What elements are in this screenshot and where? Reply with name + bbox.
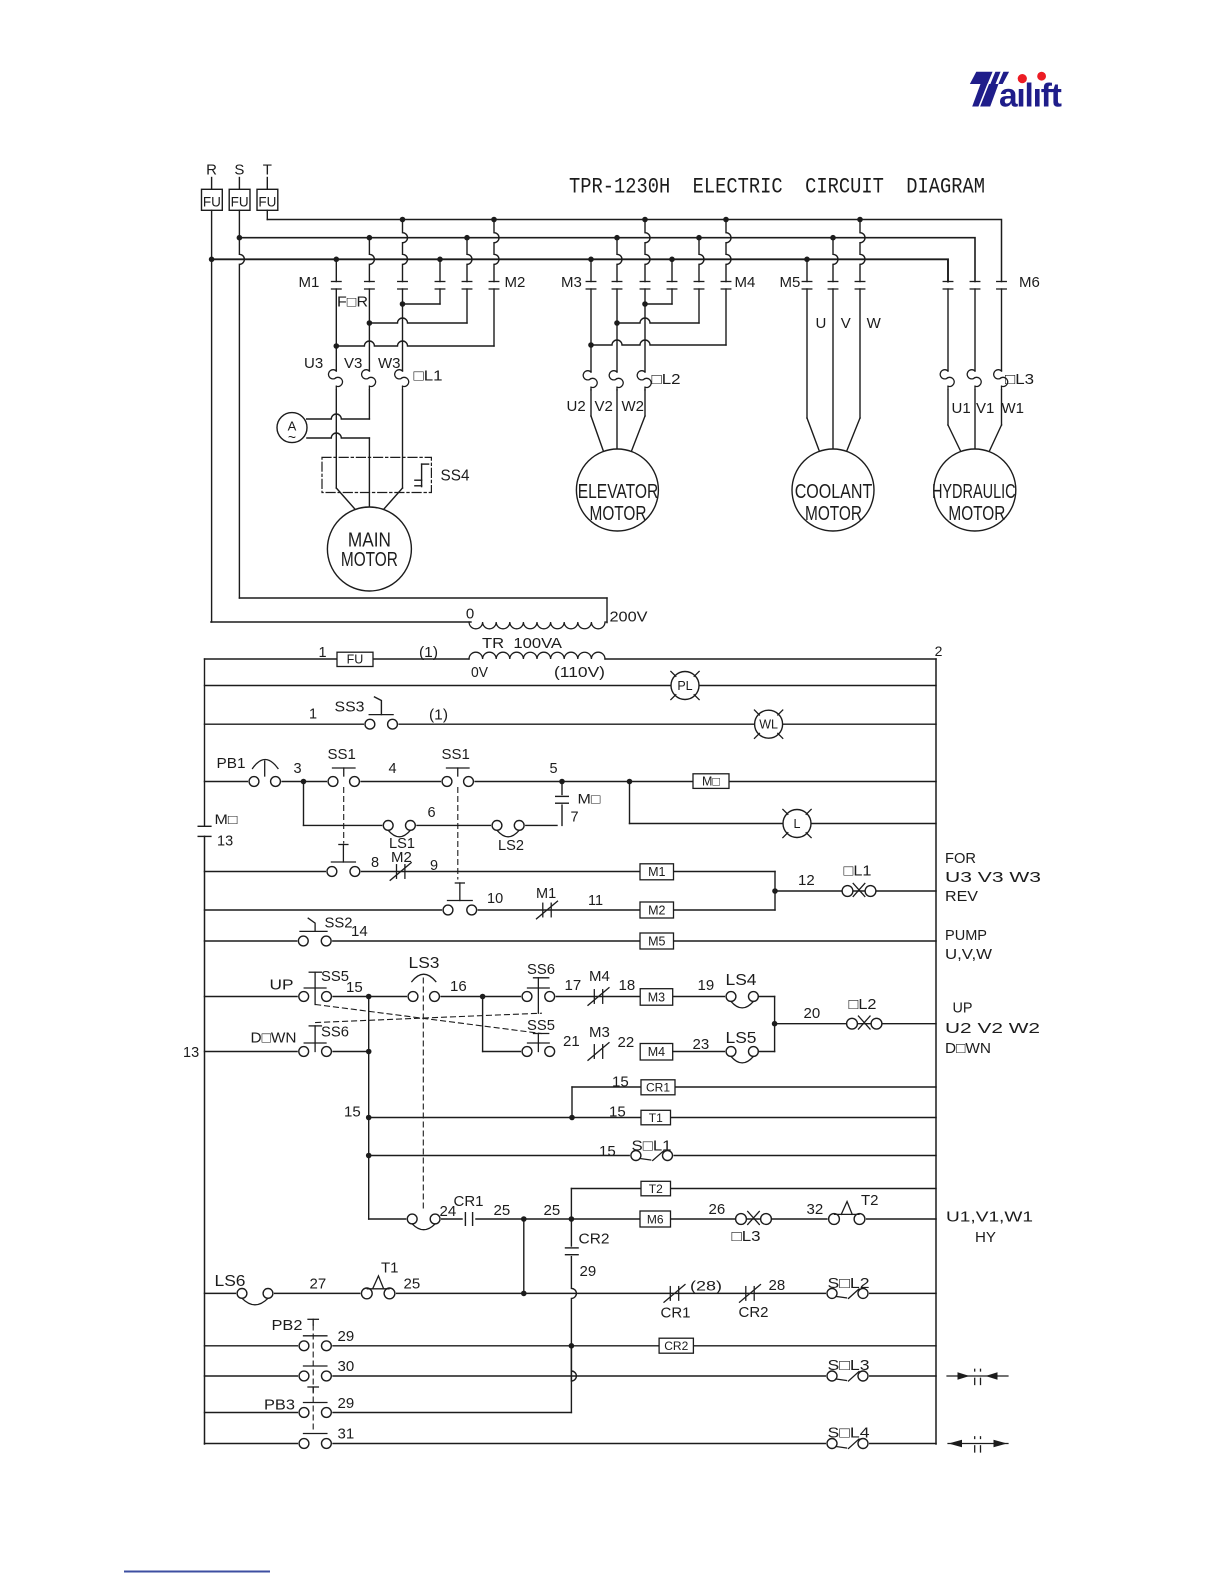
switch SS2 — [297, 915, 352, 947]
svg-text:5: 5 — [549, 761, 557, 777]
svg-text:CR1: CR1 — [646, 1081, 670, 1095]
rung wire: PL pilot lamp — [205, 685, 937, 687]
fuse FU phase S — [229, 189, 250, 210]
contactor M6 (3 poles) — [943, 274, 1040, 291]
contact M2 NC interlock — [390, 849, 412, 880]
label 17 — [565, 977, 582, 994]
coil T1 — [641, 1110, 671, 1125]
switch SS3 — [335, 697, 399, 730]
svg-text:S□L2: S□L2 — [828, 1275, 870, 1292]
valve symbol (SOL3, arrows in) — [947, 1369, 1008, 1384]
motor COOLANT MOTOR — [792, 449, 874, 531]
contact OL1 NC (thermal) — [842, 863, 876, 897]
transformer TR primary winding — [469, 622, 607, 629]
node C junction — [366, 1049, 372, 1055]
solenoid SOL2 — [826, 1275, 870, 1299]
svg-text:V: V — [841, 315, 851, 332]
label V phase — [841, 315, 851, 332]
svg-text:CR2: CR2 — [739, 1305, 769, 1321]
svg-text:UP: UP — [270, 977, 294, 994]
svg-text:ELEVATOR: ELEVATOR — [578, 481, 659, 503]
label 13 (left of rail) — [183, 1045, 199, 1061]
svg-text:25: 25 — [404, 1276, 421, 1293]
wire phase R down to transformer primary — [211, 210, 471, 622]
svg-text:22: 22 — [618, 1034, 635, 1051]
label 12 — [798, 872, 815, 889]
svg-text:U2: U2 — [567, 398, 586, 415]
svg-text:21: 21 — [563, 1033, 580, 1050]
svg-text:LS5: LS5 — [726, 1030, 757, 1047]
pushbutton PB3 (NO) — [264, 1397, 332, 1419]
rung wire: T1 coil — [366, 1115, 936, 1121]
rung wire: UP - M3 coil — [205, 996, 732, 998]
svg-text:SS3: SS3 — [335, 699, 365, 716]
svg-text:PB2: PB2 — [272, 1317, 303, 1334]
contact OL2 NC (thermal) — [847, 996, 882, 1029]
node junction CR2 branch — [569, 1343, 575, 1349]
contact OL3 NC (thermal) — [732, 1211, 772, 1245]
label 1 — [318, 645, 326, 661]
label 9 — [430, 858, 438, 874]
svg-text:6: 6 — [427, 805, 435, 821]
label 15 (CR1) — [612, 1074, 629, 1091]
rung wire: M2 coil (REV) — [205, 909, 776, 911]
label SS6 (DOWN) — [321, 1025, 349, 1041]
svg-text:27: 27 — [310, 1276, 327, 1293]
contactor M1 (3 poles) — [299, 217, 408, 291]
label 19 — [698, 977, 715, 994]
phase T label — [263, 162, 272, 179]
label PUMP — [945, 927, 987, 944]
rung wire: DOWN — [205, 1051, 369, 1053]
svg-text:HYDRAULIC: HYDRAULIC — [932, 481, 1016, 503]
label 15 — [346, 979, 363, 996]
svg-text:LS4: LS4 — [726, 972, 757, 989]
svg-text:LS6: LS6 — [215, 1273, 246, 1290]
label 27 — [310, 1276, 327, 1293]
coil M5 — [640, 933, 674, 949]
svg-text:0: 0 — [466, 606, 474, 623]
rung wire: PB3 NC - SOL4 — [205, 1443, 937, 1445]
wire W3 down through SS4 box to motor — [384, 390, 403, 510]
label U,V,W — [945, 946, 993, 963]
label 21 — [563, 1033, 580, 1050]
label 28 — [769, 1277, 786, 1294]
label W3 — [378, 355, 401, 372]
label SS5 (UP) — [321, 969, 349, 985]
contact CR2 NC — [739, 1285, 769, 1321]
dashed interlock SS5 UP-DOWN — [316, 1005, 542, 1034]
label U2 — [567, 398, 586, 415]
L lamp branch wire — [630, 782, 937, 824]
svg-text:MOTOR: MOTOR — [341, 549, 398, 571]
svg-text:PL: PL — [677, 679, 692, 693]
switch SS5 (UP) — [298, 972, 333, 1004]
svg-text:17: 17 — [565, 977, 582, 994]
svg-text:(28): (28) — [690, 1278, 722, 1294]
phase R label — [206, 162, 217, 179]
svg-text:8: 8 — [371, 855, 379, 871]
label U3 V3 W3 — [945, 869, 1041, 886]
svg-text:W1: W1 — [1002, 400, 1025, 417]
limit switch LS5 — [725, 1030, 759, 1063]
label V1 — [976, 400, 994, 417]
right rail (node 2) — [935, 659, 937, 1444]
svg-text:SS5: SS5 — [321, 969, 349, 985]
footer rule — [125, 1571, 269, 1573]
fuse FU phase T — [257, 189, 278, 210]
svg-text:SS6: SS6 — [527, 962, 555, 978]
rung wire: control feed through fuse — [205, 658, 937, 660]
wires OL2 to elevator motor — [591, 390, 645, 453]
wire M2 pole2 to M1 pole2 — [367, 289, 467, 326]
svg-text:M□: M□ — [578, 792, 601, 807]
svg-text:31: 31 — [338, 1426, 355, 1443]
wire ammeter bottom (to motor) — [307, 433, 370, 507]
svg-text:U3 V3 W3: U3 V3 W3 — [945, 869, 1041, 886]
svg-text:S□L3: S□L3 — [828, 1357, 870, 1374]
switch SS4 (dash-dot enclosure) — [322, 457, 470, 492]
svg-text:29: 29 — [338, 1328, 355, 1345]
svg-text:S□L4: S□L4 — [828, 1425, 870, 1442]
pushbutton PB2 (NO) — [272, 1317, 333, 1352]
svg-text:29: 29 — [338, 1395, 355, 1412]
label 15 (left of T1 rung) — [344, 1104, 361, 1121]
svg-text:SS6: SS6 — [321, 1025, 349, 1041]
svg-text:M3: M3 — [648, 990, 665, 1004]
svg-text:26: 26 — [709, 1201, 726, 1218]
label (110V) — [554, 664, 605, 681]
contactor M2 (3 poles) — [435, 217, 525, 291]
svg-text:32: 32 — [807, 1201, 824, 1218]
label W phase — [867, 315, 882, 332]
svg-text:M□: M□ — [215, 812, 238, 827]
label 15 (T1) — [609, 1104, 626, 1121]
contact M0 (seal-in, capacitor style) — [555, 782, 601, 826]
svg-text:FU: FU — [231, 195, 249, 210]
wire ammeter top (from V3) — [307, 390, 370, 419]
wire M4 pole3 to M3 pole1 — [588, 289, 726, 348]
svg-text:M6: M6 — [647, 1212, 664, 1226]
svg-text:CR2: CR2 — [579, 1231, 610, 1248]
motor HYDRAULIC MOTOR — [932, 449, 1016, 531]
label V3 — [344, 355, 362, 372]
Tailift logo — [970, 71, 1062, 115]
svg-text:23: 23 — [693, 1036, 710, 1053]
svg-text:□L2: □L2 — [849, 996, 877, 1013]
contact M0 (NC in left rail) — [198, 812, 237, 850]
lamp L — [783, 809, 811, 837]
svg-text:MOTOR: MOTOR — [590, 503, 647, 525]
left rail (node 13 below M0 contact) — [204, 659, 206, 1444]
dashed link LS3 to its lower pole — [422, 978, 424, 1212]
label 25 — [494, 1202, 511, 1219]
rung wire: SS3 / WL lamp — [205, 723, 937, 725]
svg-text:SS5: SS5 — [527, 1018, 555, 1034]
label DOWN (right) — [945, 1040, 991, 1057]
rung wire: PB3 (node 29) — [205, 1412, 572, 1414]
svg-text:M3: M3 — [589, 1024, 610, 1041]
wire T lead-in — [266, 178, 268, 190]
coil T2 — [641, 1181, 671, 1196]
label U3 — [304, 355, 323, 372]
dashed link SS1 pole1 — [343, 788, 345, 844]
solenoid SOL3 — [826, 1357, 870, 1382]
svg-text:M2: M2 — [391, 849, 412, 866]
label (1) — [419, 645, 438, 661]
label (1) on SS3 rung — [429, 708, 448, 724]
label 18 — [619, 977, 636, 994]
svg-text:M6: M6 — [1019, 274, 1040, 291]
label 24 — [440, 1203, 457, 1220]
svg-text:U: U — [816, 315, 827, 332]
label SS6 (UP) — [527, 962, 555, 978]
svg-text:12: 12 — [798, 872, 815, 889]
svg-text:15: 15 — [344, 1104, 361, 1121]
coil M2 — [640, 902, 674, 918]
svg-text:S: S — [234, 162, 244, 179]
svg-text:W3: W3 — [378, 355, 401, 372]
limit switch LS4 — [725, 972, 759, 1008]
svg-text:□L2: □L2 — [652, 371, 681, 388]
contact M1 NC interlock — [536, 886, 558, 919]
rung wire: PB2 - CR2 coil — [205, 1345, 937, 1347]
wire M4 pole1 to M3 pole3 (node) — [642, 289, 672, 307]
svg-text:U2 V2 W2: U2 V2 W2 — [945, 1020, 1040, 1037]
label UP — [270, 977, 294, 994]
label U1,V1,W1 — [946, 1209, 1033, 1226]
solenoid SOL1 — [630, 1138, 674, 1162]
svg-text:1: 1 — [318, 645, 326, 661]
label REV — [945, 888, 978, 905]
svg-text:0V: 0V — [471, 664, 488, 681]
wires OL3 to hydraulic motor — [948, 390, 1002, 453]
label SS5 (DOWN) — [527, 1018, 555, 1034]
label HY — [975, 1229, 996, 1246]
svg-text:FU: FU — [258, 195, 276, 210]
motor MAIN MOTOR — [327, 507, 411, 591]
label FOR — [945, 850, 976, 867]
wire M4 pole2 to M3 pole2 — [614, 289, 699, 326]
limit switch LS6 — [215, 1273, 274, 1305]
wire M2 pole3 to M1 pole1 — [334, 289, 495, 349]
wires M6 poles down to OL3 — [948, 289, 1002, 371]
label W1 — [1002, 400, 1025, 417]
svg-text:14: 14 — [351, 923, 368, 940]
svg-text:M4: M4 — [735, 274, 756, 291]
svg-text:F□R: F□R — [337, 295, 368, 311]
svg-text:□L3: □L3 — [732, 1228, 761, 1245]
svg-text:MOTOR: MOTOR — [948, 503, 1005, 525]
fuse FU phase R — [202, 189, 223, 210]
label 32 — [807, 1201, 824, 1218]
label 10 — [487, 891, 503, 907]
svg-text:15: 15 — [346, 979, 363, 996]
label UP (right) — [953, 1000, 973, 1017]
coil M0 — [693, 774, 729, 789]
wire node 25 down to LS6 rung — [523, 1219, 525, 1293]
transformer TR secondary winding — [469, 652, 605, 659]
coil M3 — [640, 989, 673, 1006]
svg-text:(1): (1) — [429, 708, 448, 724]
svg-text:FU: FU — [203, 195, 221, 210]
label 29 (branch) — [580, 1263, 597, 1280]
svg-text:7: 7 — [571, 810, 579, 826]
wire U3 down through SS4 box to motor — [336, 390, 355, 510]
svg-text:M4: M4 — [589, 968, 610, 985]
svg-text:FOR: FOR — [945, 850, 976, 867]
svg-text:SS2: SS2 — [325, 915, 353, 932]
svg-text:M2: M2 — [648, 903, 665, 917]
label 4 — [388, 761, 396, 777]
label 3 — [293, 761, 301, 777]
wire M3 poles down to OL2 — [591, 304, 645, 372]
svg-text:25: 25 — [544, 1202, 561, 1219]
wire phase T to bus L1 — [266, 210, 268, 219]
label V2 — [595, 398, 613, 415]
label TR 100VA — [482, 635, 562, 652]
dashed link SS1 pole2 — [457, 788, 459, 880]
svg-text:U,V,W: U,V,W — [945, 946, 993, 963]
rung wire: OL2 NC to right rail — [775, 1023, 936, 1025]
svg-text:TR 100VA: TR 100VA — [482, 635, 562, 652]
label 8 — [371, 855, 379, 871]
solenoid SOL4 — [826, 1425, 870, 1450]
switch SS6 (DOWN) — [298, 1026, 333, 1058]
wire M2 pole1 to M1 pole3 (node) — [400, 289, 440, 307]
svg-text:T1: T1 — [649, 1111, 663, 1125]
overload relay OL1 (3 heaters) — [328, 368, 442, 390]
switch SS1 (first pole) — [327, 746, 360, 787]
dashed interlock SS6 DOWN-UP — [316, 1013, 542, 1022]
wires M5 to coolant motor — [807, 289, 860, 453]
rung wire: LS6 - T1 - CR1 - CR2 - SOL2 — [205, 1292, 937, 1294]
coil M6 — [640, 1211, 671, 1227]
svg-text:T: T — [263, 162, 272, 179]
svg-text:HY: HY — [975, 1229, 996, 1246]
svg-text:15: 15 — [599, 1143, 616, 1160]
rung wire: M6 coil (HY) — [369, 1218, 936, 1220]
label 14 — [351, 923, 368, 940]
svg-text:V2: V2 — [595, 398, 613, 415]
svg-text:M1: M1 — [648, 865, 665, 879]
node R / bus L3 junction — [209, 257, 215, 263]
contact CR1 NC — [661, 1285, 691, 1322]
svg-text:M1: M1 — [536, 886, 556, 902]
svg-text:13: 13 — [183, 1045, 199, 1061]
fuse FU (control) — [337, 652, 373, 667]
contactor M3 (3 poles) — [561, 217, 650, 291]
motor ELEVATOR MOTOR — [576, 449, 658, 531]
wire M1 poles down to OL1 — [336, 304, 402, 371]
svg-text:(1): (1) — [419, 645, 438, 661]
svg-text:V3: V3 — [344, 355, 362, 372]
lamp WL — [754, 710, 782, 738]
contactor M4 (3 poles) — [667, 217, 755, 291]
contact CR2 branch wire (node 29) — [571, 1219, 576, 1413]
svg-text:U1: U1 — [952, 400, 971, 417]
switch SS1 linked pole (10) — [442, 883, 478, 916]
label FOR — [337, 295, 368, 311]
limit switch LS2 — [491, 820, 525, 855]
limit switch LS3 lower pole — [406, 1213, 441, 1230]
svg-text:□L1: □L1 — [414, 368, 443, 385]
bus L3 — [212, 259, 948, 281]
svg-text:M4: M4 — [648, 1045, 665, 1059]
wire R lead-in — [211, 178, 213, 190]
svg-text:16: 16 — [450, 978, 467, 995]
label 15 (SOL1) — [599, 1143, 616, 1160]
node B junction — [480, 994, 486, 1000]
pushbutton PB3 (NC pole) — [298, 1434, 332, 1450]
label 22 — [618, 1034, 635, 1051]
svg-text:U1,V1,W1: U1,V1,W1 — [946, 1209, 1033, 1226]
svg-text:M□: M□ — [702, 774, 720, 788]
node junction CR2 branch — [569, 1216, 575, 1222]
svg-text:M1: M1 — [299, 274, 320, 291]
rung wire: SOL1 — [366, 1153, 936, 1159]
svg-text:2: 2 — [935, 643, 943, 659]
svg-text:L: L — [794, 817, 801, 831]
svg-text:25: 25 — [494, 1202, 511, 1219]
svg-text:T2: T2 — [861, 1192, 879, 1209]
node junction to M0 coil / L lamp — [627, 779, 633, 785]
valve symbol (SOL4, arrows out) — [948, 1437, 1008, 1452]
svg-text:15: 15 — [612, 1074, 629, 1091]
switch SS1 linked pole (8) — [326, 845, 361, 878]
label 7 — [571, 810, 579, 826]
svg-text:PB3: PB3 — [264, 1397, 295, 1414]
label DOWN — [251, 1030, 297, 1047]
node 25 junction — [521, 1216, 527, 1222]
bus L2 — [239, 238, 975, 282]
label 0 (primary) — [466, 606, 474, 623]
rung wire: T2 coil — [571, 1189, 936, 1220]
dashed link PB2/PB3 mechanical — [308, 1319, 318, 1433]
label 0V — [471, 664, 488, 681]
wire LS5 to join — [758, 1051, 774, 1053]
svg-text:11: 11 — [588, 893, 603, 909]
svg-text:SS4: SS4 — [441, 468, 470, 485]
label 30 — [338, 1358, 355, 1375]
label 2 — [935, 643, 943, 659]
rung wire: M5 coil (PUMP) — [205, 940, 937, 942]
contact T2 (delayed) — [828, 1192, 879, 1225]
limit switch LS3 (dome) — [407, 955, 440, 1002]
label 25 (second) — [544, 1202, 561, 1219]
label 16 — [450, 978, 467, 995]
svg-text:PB1: PB1 — [217, 755, 246, 772]
svg-text:3: 3 — [293, 761, 301, 777]
coil CR1 — [641, 1080, 675, 1095]
svg-text:30: 30 — [338, 1358, 355, 1375]
rung wire: PB2 NC - SOL3 — [205, 1375, 937, 1377]
wire node A to node C to M6 rung — [368, 997, 370, 1220]
svg-text:9: 9 — [430, 858, 438, 874]
node 3 junction — [301, 779, 307, 785]
svg-text:(110V): (110V) — [554, 664, 605, 681]
svg-text:U3: U3 — [304, 355, 323, 372]
svg-text:18: 18 — [619, 977, 636, 994]
label 25 (T1) — [404, 1276, 421, 1293]
contact CR1 (NO, capacitor style) — [464, 1212, 473, 1227]
node junction LS6/M6 — [521, 1291, 527, 1297]
limit switch LS1 — [382, 820, 416, 853]
svg-text:CR1: CR1 — [454, 1193, 484, 1210]
contact M4 NC interlock — [588, 968, 610, 1005]
svg-text:R: R — [206, 162, 217, 179]
svg-text:WL: WL — [759, 718, 778, 732]
